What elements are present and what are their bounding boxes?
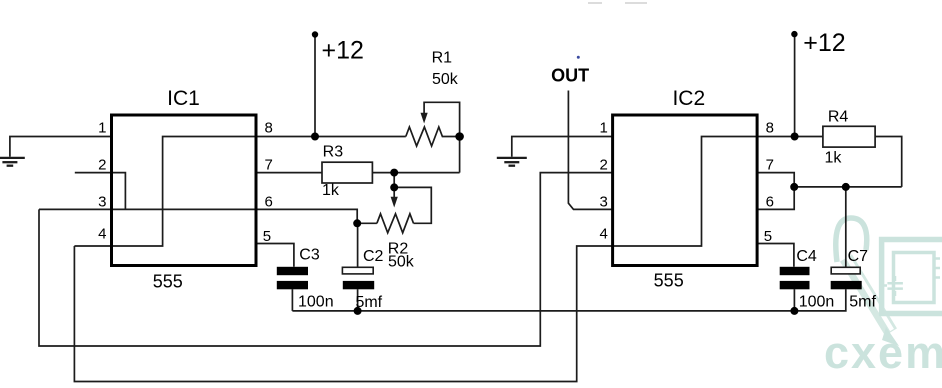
wire IC1 pin4 internal to pin8 and R1 — [74, 137, 405, 247]
junction R2 left / pin6 / C2 — [353, 219, 361, 227]
junction C2 bottom / ground rail — [354, 307, 362, 315]
node +12 terminal IC2 — [791, 31, 797, 37]
wire pin2 IC1 stub + internal jog — [75, 173, 126, 210]
svg-text:R4: R4 — [828, 109, 849, 126]
wire IC2 internal pin4 to pin8 — [613, 137, 758, 247]
op-amp IC1 box — [112, 115, 257, 266]
junction pin8 IC1 / +12 — [311, 133, 319, 141]
capacitor C3 plates — [277, 267, 308, 275]
svg-text:5: 5 — [764, 228, 772, 245]
svg-text:2: 2 — [599, 157, 607, 174]
junction pin8 IC2 / +12 — [791, 133, 799, 141]
node +12 terminal IC1 — [312, 31, 318, 37]
arrowhead R2 wiper — [391, 197, 398, 208]
svg-text:+12: +12 — [803, 29, 845, 57]
svg-text:1k: 1k — [824, 150, 842, 167]
resistor R1 zigzag — [406, 127, 460, 146]
wire C7 top — [845, 187, 847, 267]
svg-text:R3: R3 — [323, 143, 344, 160]
svg-text:5mf: 5mf — [849, 293, 876, 310]
capacitor C4 plates — [780, 267, 810, 275]
op-amp IC2 box — [613, 115, 758, 266]
wire pin7 IC1 to R3 — [256, 172, 322, 174]
svg-text:5: 5 — [263, 228, 271, 245]
watermark cxem.net logo — [836, 218, 942, 346]
wire pin1 IC2 to ground — [512, 137, 613, 157]
ground symbol IC2 — [497, 158, 527, 166]
svg-text:C2: C2 — [363, 248, 384, 265]
wire C4 bottom — [793, 289, 795, 311]
svg-text:4: 4 — [98, 226, 106, 243]
svg-text:555: 555 — [153, 272, 183, 292]
wire IC1 pin4 to IC2 pin4 — [74, 246, 612, 382]
svg-text:4: 4 — [599, 226, 607, 243]
wire R2 wiper tee — [394, 173, 431, 224]
wire pin1 IC1 to ground — [10, 137, 112, 157]
junction C4 bottom / ground rail — [790, 307, 798, 315]
capacitor C2 plates — [342, 267, 373, 274]
svg-text:R1: R1 — [432, 50, 453, 67]
wire R4 right loop — [875, 137, 902, 187]
svg-text:IC1: IC1 — [167, 87, 200, 110]
pin numbers IC2 — [599, 120, 773, 245]
wire C2 top / bottom — [357, 223, 359, 311]
svg-text:7: 7 — [265, 157, 273, 174]
junction C7 top / R4 net — [842, 183, 850, 191]
wire R1 wiper loop — [424, 102, 460, 133]
wire IC1 pin3 to IC2 pin2 — [39, 173, 613, 346]
svg-text:3: 3 — [599, 194, 607, 211]
wire +12 supply IC2 — [794, 34, 796, 136]
wire node pin3/pin6 row IC1 — [39, 209, 357, 223]
svg-text:6: 6 — [766, 194, 774, 211]
wire pin8 IC2 to R4 — [757, 136, 823, 138]
wire pin5 IC1 to C3 — [256, 244, 294, 267]
svg-text:1: 1 — [599, 120, 607, 137]
wire node pins6/7 to R4 bottom — [794, 186, 902, 188]
svg-text:5mf: 5mf — [355, 294, 382, 311]
svg-text:C4: C4 — [796, 248, 817, 265]
junction pins6-7 IC2 — [790, 183, 798, 191]
ground symbol IC1 — [0, 158, 25, 166]
wire pin5 IC2 to C4 — [757, 244, 794, 267]
wire C3 bottom — [291, 289, 293, 311]
svg-text:C3: C3 — [299, 247, 320, 264]
svg-text:6: 6 — [265, 194, 273, 211]
wire +12 supply IC1 — [314, 35, 316, 137]
svg-text:C7: C7 — [848, 248, 869, 265]
junction R3 / pin7 net — [390, 169, 398, 177]
svg-text:IC2: IC2 — [672, 87, 705, 110]
svg-text:100n: 100n — [298, 293, 334, 310]
junction R1 right / wiper — [455, 132, 464, 141]
wire R1 right to pin7 row — [459, 137, 461, 173]
wire OUT to IC2 pin3 — [568, 91, 612, 210]
svg-text:7: 7 — [766, 157, 774, 174]
svg-text:50k: 50k — [388, 254, 415, 271]
svg-text:8: 8 — [766, 120, 774, 137]
wire R2 left lead — [357, 222, 377, 224]
svg-text:3: 3 — [98, 194, 106, 211]
svg-text:OUT: OUT — [551, 66, 589, 86]
pin numbers IC1 — [98, 120, 273, 245]
arrowhead R1 wiper — [421, 113, 428, 124]
blue speck above OUT — [577, 56, 580, 59]
wire R3 to junction — [372, 172, 459, 174]
svg-text:+12: +12 — [322, 37, 364, 65]
svg-text:cxem: cxem — [824, 327, 942, 378]
resistor R4 body — [823, 126, 875, 147]
svg-text:2: 2 — [98, 157, 106, 174]
wire pins 6-7 bracket IC2 — [757, 173, 794, 210]
svg-text:555: 555 — [654, 271, 684, 291]
wire ground rail bottom — [292, 289, 845, 311]
resistor R3 body — [322, 162, 372, 183]
svg-text:50k: 50k — [432, 71, 459, 88]
svg-text:1: 1 — [98, 120, 106, 137]
svg-text:100n: 100n — [799, 293, 835, 310]
svg-text:1k: 1k — [322, 182, 340, 199]
svg-text:8: 8 — [265, 120, 273, 137]
junction R2 wiper tee — [390, 183, 398, 191]
resistor R2 zigzag — [377, 214, 414, 233]
faint top specks — [588, 2, 602, 4]
capacitor C7 plates — [831, 267, 860, 274]
